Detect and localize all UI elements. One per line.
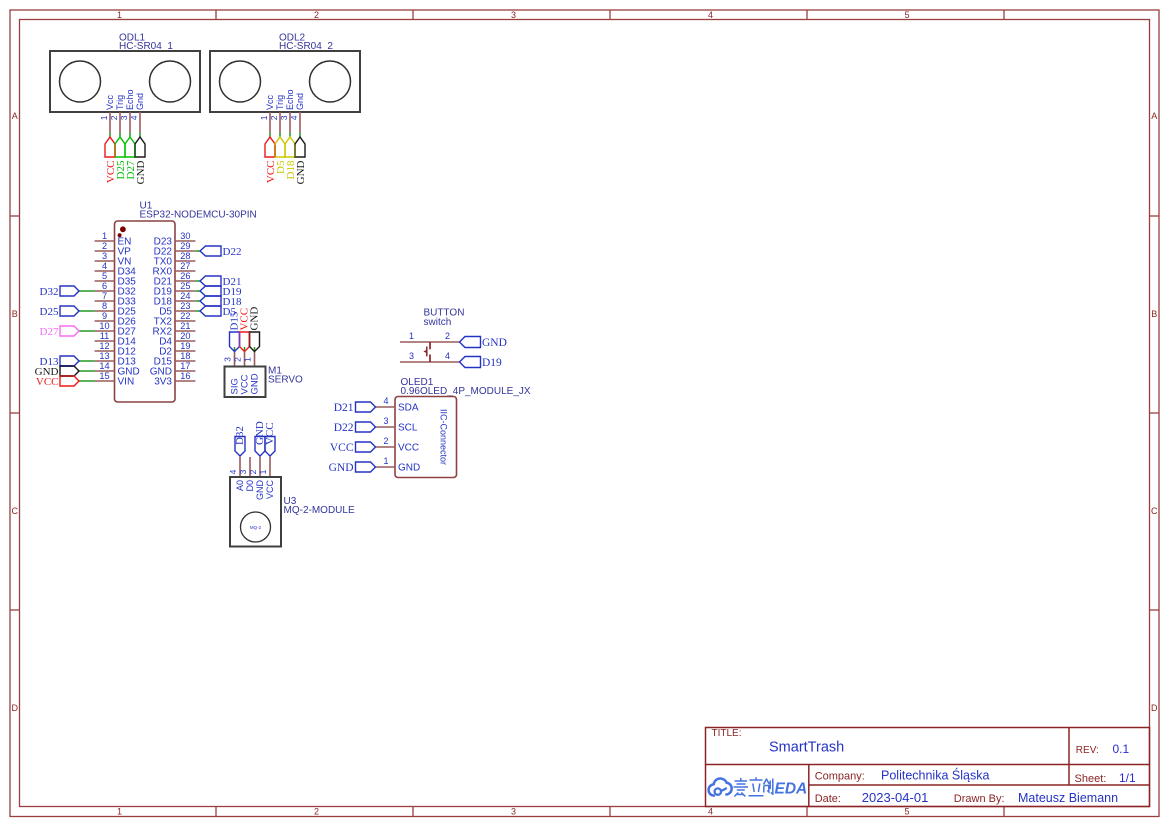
net flag D27 (125, 137, 135, 157)
svg-text:VCC: VCC (265, 480, 275, 500)
U3 body (230, 477, 281, 547)
svg-text:SERVO: SERVO (268, 375, 303, 386)
svg-text:VCC: VCC (398, 443, 419, 454)
svg-text:Echo: Echo (125, 89, 135, 110)
U1 pin 3 VN (95, 260, 115, 262)
svg-text:3: 3 (223, 357, 233, 362)
U1 pin 4 D34 (95, 270, 115, 272)
wire D5 (195, 310, 200, 312)
svg-text:A0: A0 (235, 480, 245, 491)
M1 pin 1 (254, 353, 256, 367)
flag overlap edges (239, 332, 241, 347)
U1 pin 21 RX2 (175, 330, 195, 332)
svg-text:3: 3 (511, 10, 516, 20)
svg-text:GND: GND (255, 480, 265, 501)
svg-text:11: 11 (100, 331, 110, 341)
wire D18 (289, 133, 291, 138)
title block (706, 728, 1150, 807)
svg-text:1: 1 (258, 469, 268, 474)
svg-text:D32: D32 (40, 286, 59, 298)
U1 pin 18 D15 (175, 360, 195, 362)
net flag GND (135, 137, 145, 157)
net flag VCC (60, 376, 79, 386)
ODL1 body (50, 51, 200, 112)
U1 pin 23 D5 (175, 310, 195, 312)
U1 pin 28 TX0 (175, 260, 195, 262)
svg-text:D: D (1151, 703, 1158, 713)
svg-text:17: 17 (180, 361, 190, 371)
U1 pin 30 D23 (175, 240, 195, 242)
net flag D5 (200, 306, 221, 316)
svg-text:MQ-2-MODULE: MQ-2-MODULE (284, 505, 355, 516)
svg-text:Gnd: Gnd (135, 93, 145, 110)
svg-text:GND: GND (249, 307, 261, 331)
OLED1 pin 2 VCC (376, 446, 396, 448)
ruler ticks left (10, 215, 20, 217)
svg-text:2: 2 (248, 469, 258, 474)
net flag D22 (oled) (356, 422, 376, 432)
net flag VCC (105, 137, 115, 157)
BUTTON switch symbol (429, 342, 431, 349)
BUTTON pin 1-2 wire (400, 341, 460, 343)
U1 pin 22 TX2 (175, 320, 195, 322)
wire D21 (195, 280, 200, 282)
OLED1 pin 3 SCL (376, 426, 396, 428)
svg-text:Company:: Company: (815, 771, 865, 783)
wire GND (139, 133, 141, 138)
ODL1 right transducer circle (150, 61, 191, 102)
ODL2 right transducer circle (310, 61, 351, 102)
svg-text:1: 1 (383, 456, 388, 466)
svg-text:1: 1 (117, 10, 122, 20)
net flag VCC (265, 137, 275, 157)
net flag D25 (115, 137, 125, 157)
M1 pin 2 (244, 353, 246, 367)
svg-text:1: 1 (99, 115, 109, 120)
JLCEDA logo cloud (709, 778, 732, 795)
U1 pin 1 EN (95, 240, 115, 242)
svg-text:5: 5 (904, 10, 909, 20)
wire GND (299, 133, 301, 138)
svg-text:21: 21 (180, 321, 190, 331)
svg-text:3: 3 (238, 469, 248, 474)
svg-text:VCC: VCC (330, 442, 354, 454)
svg-text:2: 2 (109, 115, 119, 120)
JLCEDA logo CJK glyphs (734, 778, 749, 797)
wire D25 (79, 310, 95, 312)
svg-text:Mateusz Biemann: Mateusz Biemann (1018, 791, 1118, 805)
svg-text:0.1: 0.1 (1113, 742, 1130, 756)
svg-text:C: C (1151, 506, 1158, 516)
svg-text:20: 20 (180, 331, 190, 341)
U1 pin 26 D21 (175, 280, 195, 282)
svg-text:VCC: VCC (36, 376, 59, 388)
wire servo pin 3 (234, 347, 236, 353)
svg-text:Sheet:: Sheet: (1075, 773, 1107, 785)
svg-text:12: 12 (99, 341, 109, 351)
net flag D25 (60, 306, 79, 316)
svg-text:3V3: 3V3 (154, 376, 172, 387)
svg-text:D22: D22 (334, 422, 354, 434)
ODL1 left transducer circle (60, 61, 101, 102)
M1 body (225, 367, 266, 398)
svg-text:28: 28 (180, 251, 190, 261)
net flag D15 (230, 332, 240, 352)
U1 pin 5 D35 (95, 280, 115, 282)
wire VCC (269, 133, 271, 138)
svg-text:2: 2 (314, 807, 319, 817)
svg-text:GND: GND (398, 463, 420, 474)
wire D32 (79, 290, 95, 292)
wire D13 (79, 360, 95, 362)
svg-text:switch: switch (424, 317, 452, 328)
U1 pin 8 D25 (95, 310, 115, 312)
net flag D5 (275, 137, 285, 157)
svg-text:A: A (12, 111, 18, 121)
svg-text:0.96OLED_4P_MODULE_JX: 0.96OLED_4P_MODULE_JX (401, 386, 531, 397)
U1 pin 2 VP (95, 250, 115, 252)
svg-text:2: 2 (269, 115, 279, 120)
svg-text:4: 4 (708, 10, 713, 20)
svg-text:18: 18 (180, 351, 190, 361)
U3 sensor circle (241, 512, 271, 542)
svg-text:GND: GND (482, 337, 507, 349)
svg-text:3: 3 (383, 416, 388, 426)
svg-text:1: 1 (259, 115, 269, 120)
svg-text:Politechnika Śląska: Politechnika Śląska (881, 768, 989, 783)
wire D19 (195, 290, 200, 292)
wire D27 (129, 133, 131, 138)
svg-text:14: 14 (99, 361, 109, 371)
net flag GND (255, 437, 265, 457)
OLED1 pin 1 GND (376, 466, 396, 468)
svg-text:19: 19 (180, 341, 190, 351)
BUTTON pin 3-4 wire (400, 361, 460, 363)
net flag VCC (oled) (356, 442, 376, 452)
svg-text:7: 7 (102, 291, 107, 301)
svg-text:2: 2 (445, 331, 450, 341)
wire D18 (195, 300, 200, 302)
svg-text:SCL: SCL (398, 423, 418, 434)
svg-text:Trig: Trig (275, 95, 285, 110)
net flag D18 (285, 137, 295, 157)
wire VCC (109, 133, 111, 138)
wire D25 (119, 133, 121, 138)
svg-text:3: 3 (511, 807, 516, 817)
svg-text:2: 2 (383, 436, 388, 446)
svg-text:SmartTrash: SmartTrash (769, 740, 844, 756)
svg-text:TITLE:: TITLE: (712, 728, 742, 739)
U1 pin 10 D27 (95, 330, 115, 332)
U1 pin 16 3V3 (175, 380, 195, 382)
svg-text:D19: D19 (482, 357, 502, 369)
OLED1 pin 4 SDA (376, 406, 396, 408)
svg-text:D: D (11, 703, 18, 713)
ruler ticks bottom (215, 807, 217, 817)
U1 pin 17 GND (175, 370, 195, 372)
svg-text:5: 5 (904, 807, 909, 817)
net flag GND (295, 137, 305, 157)
svg-text:16: 16 (180, 371, 190, 381)
U1 pin 11 D14 (95, 340, 115, 342)
svg-text:24: 24 (180, 291, 190, 301)
U3 pin 4 A0 (239, 457, 241, 478)
svg-text:4: 4 (445, 351, 450, 361)
svg-text:30: 30 (180, 231, 190, 241)
svg-text:22: 22 (180, 311, 190, 321)
svg-text:2023-04-01: 2023-04-01 (862, 790, 929, 805)
flag overlap edges (114, 145, 116, 158)
svg-text:D21: D21 (334, 402, 354, 414)
wire D22 (195, 250, 200, 252)
U1 body (115, 221, 176, 402)
ruler ticks top (215, 10, 217, 20)
OLED1 body (395, 397, 457, 478)
net flag GND (oled) (356, 462, 376, 472)
wire GND (79, 370, 95, 372)
svg-text:Trig: Trig (115, 95, 125, 110)
net flag D32 (60, 286, 79, 296)
ruler ticks right (1150, 215, 1160, 217)
wire servo pin 1 (254, 347, 256, 353)
svg-text:IIC-Connector: IIC-Connector (439, 409, 449, 465)
svg-text:GND: GND (329, 462, 354, 474)
svg-text:SDA: SDA (398, 403, 419, 414)
flag overlap edges (left stack) (60, 365, 73, 367)
U1 pin 29 D22 (175, 250, 195, 252)
wire D5 (279, 133, 281, 138)
ODL2 body (210, 51, 360, 112)
svg-text:3: 3 (119, 115, 129, 120)
svg-text:VIN: VIN (118, 376, 135, 387)
U1 pin 27 RX0 (175, 270, 195, 272)
title block col line REV/Sheet (1068, 728, 1070, 786)
svg-text:MQ-2: MQ-2 (250, 525, 262, 530)
net flag D19 (button) (460, 357, 481, 368)
net flag GND (250, 332, 260, 352)
svg-text:GND: GND (295, 160, 307, 184)
svg-text:9: 9 (102, 311, 107, 321)
svg-text:4: 4 (708, 807, 713, 817)
net flag D27 (60, 326, 79, 336)
svg-text:Gnd: Gnd (295, 93, 305, 110)
svg-text:25: 25 (180, 281, 190, 291)
net flag D22 (200, 246, 221, 256)
svg-text:Echo: Echo (285, 89, 295, 110)
net flag VCC (240, 332, 250, 352)
U1 pin 7 D33 (95, 300, 115, 302)
U3 pin 1 VCC (269, 457, 271, 478)
svg-text:15: 15 (99, 371, 109, 381)
U1 pin 6 D32 (95, 290, 115, 292)
svg-text:23: 23 (180, 301, 190, 311)
svg-text:26: 26 (180, 271, 190, 281)
svg-text:4: 4 (228, 469, 238, 474)
U1 pin 25 D19 (175, 290, 195, 292)
U3 pin 2 GND (259, 457, 261, 478)
svg-text:3: 3 (102, 251, 107, 261)
svg-text:2: 2 (233, 357, 243, 362)
svg-text:GND: GND (135, 160, 147, 184)
svg-text:Vcc: Vcc (105, 94, 115, 110)
svg-text:3: 3 (279, 115, 289, 120)
svg-text:EDA: EDA (775, 781, 808, 798)
net flag D21 (200, 276, 221, 286)
svg-text:C: C (11, 506, 18, 516)
title block logo cell line (808, 765, 810, 807)
svg-text:4: 4 (102, 261, 107, 271)
svg-text:1: 1 (102, 231, 107, 241)
svg-text:13: 13 (99, 351, 109, 361)
svg-text:6: 6 (102, 281, 107, 291)
svg-text:2: 2 (102, 241, 107, 251)
svg-text:GND: GND (250, 373, 261, 394)
svg-text:ESP32-NODEMCU-30PIN: ESP32-NODEMCU-30PIN (140, 209, 257, 220)
svg-text:27: 27 (180, 261, 190, 271)
svg-text:4: 4 (289, 115, 299, 120)
svg-text:B: B (12, 309, 18, 319)
svg-text:D27: D27 (40, 326, 59, 338)
svg-text:D22: D22 (223, 246, 242, 258)
U1 pin 15 VIN (95, 380, 115, 382)
wire VCC (79, 380, 95, 382)
ODL2 left transducer circle (220, 61, 261, 102)
svg-text:Date:: Date: (815, 793, 841, 805)
title block row line 1 (706, 764, 1150, 766)
U1 pin 9 D26 (95, 320, 115, 322)
M1 pin 3 (234, 353, 236, 367)
svg-text:Vcc: Vcc (265, 94, 275, 110)
U3 pin 3 D0 (249, 457, 251, 477)
svg-text:REV:: REV: (1076, 745, 1099, 756)
U1 pin 19 D2 (175, 350, 195, 352)
U1 pin 14 GND (95, 370, 115, 372)
svg-text:5: 5 (102, 271, 107, 281)
net flag VCC (265, 437, 275, 457)
wire servo pin 2 (244, 347, 246, 353)
U1 pin 13 D13 (95, 360, 115, 362)
svg-text:1: 1 (409, 331, 414, 341)
title block row line 2 (809, 784, 1150, 786)
wire D27 (79, 330, 95, 332)
net flag GND (60, 366, 79, 376)
svg-text:1: 1 (243, 357, 253, 362)
svg-text:A: A (1151, 111, 1157, 121)
net flag D13 (60, 356, 79, 366)
svg-text:D0: D0 (245, 480, 255, 492)
net flag D19 (200, 286, 221, 296)
svg-text:29: 29 (180, 241, 190, 251)
net flag GND (button) (460, 337, 481, 348)
net flag D32 (235, 437, 245, 457)
svg-text:4: 4 (129, 115, 139, 120)
svg-text:3: 3 (409, 351, 414, 361)
svg-text:4: 4 (383, 396, 388, 406)
svg-text:B: B (1151, 309, 1157, 319)
svg-text:8: 8 (102, 301, 107, 311)
flag overlap edges (274, 145, 276, 158)
U1 pin 12 D12 (95, 350, 115, 352)
net flag D18 (200, 296, 221, 306)
U1 pin-1 marker dots (121, 227, 126, 232)
svg-text:1/1: 1/1 (1119, 771, 1136, 785)
svg-text:Drawn By:: Drawn By: (954, 793, 1005, 805)
svg-text:10: 10 (99, 321, 109, 331)
U1 pin 24 D18 (175, 300, 195, 302)
svg-text:2: 2 (314, 10, 319, 20)
U1 pin 20 D4 (175, 340, 195, 342)
svg-text:1: 1 (117, 807, 122, 817)
net flag D21 (oled) (356, 402, 376, 412)
svg-text:D25: D25 (40, 306, 59, 318)
